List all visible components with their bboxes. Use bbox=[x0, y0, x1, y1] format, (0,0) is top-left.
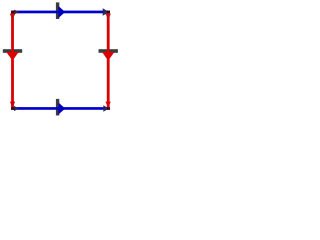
wire: right edge b (red) bbox=[107, 11, 110, 110]
node bottom-mid arrow wings bbox=[56, 99, 59, 116]
node bottom-left corner end arrow bbox=[10, 102, 19, 112]
node bottom-mid arrow head (blue, points right) bbox=[58, 102, 65, 114]
node right-mid arrow head (red, points down) bbox=[102, 52, 114, 61]
node right-mid arrow wings bbox=[99, 49, 118, 53]
background bbox=[0, 0, 120, 120]
node left-mid arrow wings bbox=[3, 49, 22, 53]
wire: top edge a (blue) bbox=[11, 11, 110, 14]
wire: left edge b (red) bbox=[11, 11, 14, 110]
node top-right corner arrows bbox=[103, 8, 111, 20]
node bottom-right corner end arrows bbox=[103, 102, 111, 112]
node top-mid arrow wings bbox=[56, 2, 59, 19]
node top-left corner start arrows bbox=[10, 10, 19, 21]
node left-mid arrow head (red, points down) bbox=[6, 52, 18, 61]
node top-mid arrow head (blue, points right) bbox=[58, 6, 65, 18]
torus identification-square diagram bbox=[0, 0, 120, 120]
wire: bottom edge a (blue) bbox=[11, 107, 110, 110]
